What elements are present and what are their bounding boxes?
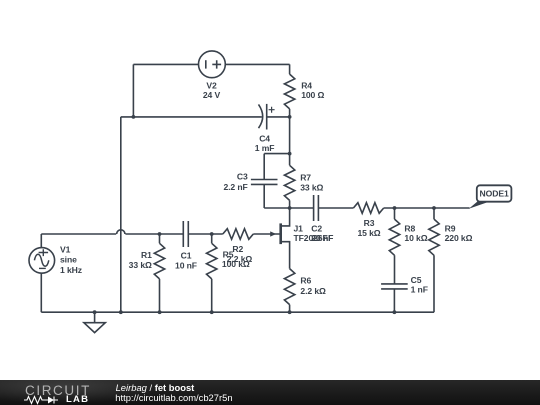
label C4 value 1 mF bbox=[255, 133, 275, 153]
svg-text:V1: V1 bbox=[60, 244, 71, 254]
svg-text:R8: R8 bbox=[404, 224, 415, 234]
svg-text:C1: C1 bbox=[181, 250, 192, 260]
wire: V2 top rail left segment bbox=[133, 63, 198, 65]
logo squiggle: resistor + diode bbox=[24, 395, 64, 405]
wire: left vertical from V2 down to mid rail bbox=[132, 64, 134, 117]
svg-text:33 kΩ: 33 kΩ bbox=[129, 260, 152, 270]
JFET J1 bbox=[253, 208, 289, 269]
url bbox=[115, 392, 232, 403]
label R4 value 100 ohm bbox=[301, 81, 324, 101]
footer bar bbox=[0, 380, 540, 405]
label R5 value 100 kohm bbox=[222, 249, 250, 269]
CircuitLab logo bbox=[25, 383, 91, 398]
label R6 value 2.2 kohm bbox=[300, 276, 326, 296]
node junction at (289.6,116.9) bbox=[288, 115, 292, 119]
wire: center column down to R7 node bbox=[289, 117, 291, 154]
wire: signal row from V1 with hop over left vertical bbox=[41, 233, 116, 235]
ground symbol bbox=[84, 312, 105, 332]
resistor R6 bbox=[284, 269, 294, 313]
label R9 value 220 kohm bbox=[445, 224, 473, 244]
svg-text:1 nF: 1 nF bbox=[411, 285, 428, 295]
resistor R3 bbox=[353, 203, 383, 214]
svg-text:R3: R3 bbox=[364, 218, 375, 228]
svg-text:R4: R4 bbox=[301, 81, 312, 91]
wire hop over vertical bbox=[117, 230, 125, 234]
label J1 model TF2026F bbox=[294, 224, 328, 244]
wire: long left vertical down to ground rail bbox=[120, 117, 122, 312]
resistor R8 bbox=[389, 208, 399, 284]
node junction left vertical bottom bbox=[119, 310, 123, 314]
capacitor C5 bbox=[381, 284, 408, 289]
capacitor C1 bbox=[183, 221, 188, 247]
label C2 value 20 nF (overlapping) bbox=[311, 233, 333, 243]
node junction C5 bottom bbox=[393, 310, 397, 314]
svg-text:24 V: 24 V bbox=[203, 90, 221, 100]
label C2 value 20 nF bbox=[311, 224, 333, 244]
voltage source V1 (sine) bbox=[29, 234, 55, 312]
svg-text:33 kΩ: 33 kΩ bbox=[300, 183, 323, 193]
label V2 value 24 V bbox=[203, 81, 221, 101]
wire: C1 to R2 bbox=[188, 233, 223, 235]
svg-text:2.2 kΩ: 2.2 kΩ bbox=[227, 254, 253, 264]
node junction R6 bottom bbox=[288, 310, 292, 314]
svg-text:sine: sine bbox=[60, 255, 77, 265]
byline bbox=[116, 382, 195, 393]
label R8 value 10 kohm bbox=[404, 224, 427, 244]
node junction at (133.4,116.9) bbox=[132, 115, 136, 119]
label R2 value 2.2 kohm bbox=[227, 244, 253, 264]
label R1 value 33 kohm bbox=[129, 250, 152, 270]
node junction at (211.7,233.8) bbox=[210, 232, 214, 236]
svg-text:C3: C3 bbox=[237, 171, 248, 181]
svg-text:C4: C4 bbox=[259, 133, 270, 143]
svg-text:C5: C5 bbox=[411, 275, 422, 285]
resistor R7 bbox=[284, 154, 294, 208]
svg-text:220 kΩ: 220 kΩ bbox=[445, 233, 473, 243]
label C1 value 10 nF bbox=[175, 250, 197, 270]
svg-text:10 kΩ: 10 kΩ bbox=[404, 233, 427, 243]
wire: ground rail bbox=[41, 311, 434, 313]
wire: mid horizontal to C4 bbox=[121, 116, 262, 118]
node junction at (289.6,153.6) bbox=[288, 152, 292, 156]
wire: C4 right plate to center column bbox=[267, 116, 290, 118]
capacitor C3 bbox=[251, 180, 278, 185]
svg-text:R1: R1 bbox=[141, 250, 152, 260]
svg-text:2.2 nF: 2.2 nF bbox=[223, 182, 247, 192]
svg-text:C2: C2 bbox=[311, 224, 322, 234]
svg-text:2.2 kΩ: 2.2 kΩ bbox=[300, 286, 326, 296]
wire: drain node to C2 bbox=[290, 207, 314, 209]
wire: R3 to R8 node to R9 node to NODE1 bbox=[384, 207, 470, 209]
svg-text:R7: R7 bbox=[300, 172, 311, 182]
svg-text:R2: R2 bbox=[232, 244, 243, 254]
voltage source V2 bbox=[199, 51, 226, 78]
svg-text:10 nF: 10 nF bbox=[175, 261, 197, 271]
wire: V2 top rail right segment bbox=[225, 63, 289, 65]
node junction at (159.6,233.8) bbox=[158, 232, 162, 236]
node junction ground stem bbox=[93, 310, 97, 314]
node flag NODE1 bbox=[469, 185, 512, 209]
svg-text:R9: R9 bbox=[445, 224, 456, 234]
svg-text:V2: V2 bbox=[206, 81, 217, 91]
resistor R4 bbox=[284, 64, 294, 117]
wire: signal row hop to C1 bbox=[125, 233, 183, 235]
resistor R5 bbox=[207, 234, 217, 312]
capacitor C2 bbox=[314, 195, 319, 221]
node junction at (289.6,207.9) bbox=[288, 206, 292, 210]
capacitor C4 (polarized) bbox=[259, 104, 275, 130]
resistor R9 bbox=[429, 208, 439, 312]
node junction at (394.4,207.9) bbox=[393, 206, 397, 210]
resistor R1 bbox=[154, 234, 164, 312]
wire: branch left to C3 top bbox=[264, 154, 289, 180]
label R7 value 33 kohm bbox=[300, 172, 323, 192]
svg-text:1 kHz: 1 kHz bbox=[60, 265, 82, 275]
svg-text:15 kΩ: 15 kΩ bbox=[357, 228, 380, 238]
node junction R5 bottom bbox=[210, 310, 214, 314]
label R3 value 15 kohm bbox=[357, 218, 380, 238]
label C3 value 2.2 nF bbox=[223, 171, 248, 192]
wire: C3 bottom to drain node bbox=[264, 184, 289, 208]
wire: C5 bottom stem bbox=[393, 289, 395, 312]
svg-text:20 nF: 20 nF bbox=[311, 233, 333, 243]
svg-text:1 mF: 1 mF bbox=[255, 143, 275, 153]
svg-text:NODE1: NODE1 bbox=[480, 188, 509, 198]
svg-text:J1: J1 bbox=[294, 224, 304, 234]
node junction at (434,207.9) bbox=[432, 206, 436, 210]
resistor R2 bbox=[223, 229, 254, 240]
svg-text:100 Ω: 100 Ω bbox=[301, 90, 324, 100]
label V1 sine 1 kHz bbox=[60, 244, 82, 275]
node junction R1 bottom bbox=[158, 310, 162, 314]
label C5 value 1 nF bbox=[411, 275, 428, 295]
svg-text:R6: R6 bbox=[300, 276, 311, 286]
wire: C2 to R3 bbox=[318, 207, 353, 209]
